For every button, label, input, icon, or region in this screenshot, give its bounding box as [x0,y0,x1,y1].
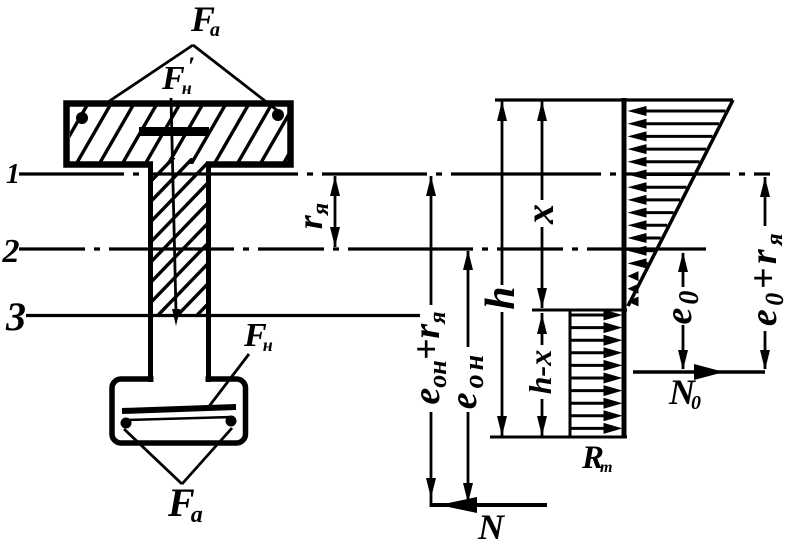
svg-text:1: 1 [6,159,20,190]
svg-text:N: N [477,507,506,545]
svg-text:h-x: h-x [522,350,558,394]
svg-text:2: 2 [2,233,20,270]
svg-text:h: h [478,286,524,309]
svg-text:x: x [517,204,562,225]
svg-text:3: 3 [5,294,26,339]
